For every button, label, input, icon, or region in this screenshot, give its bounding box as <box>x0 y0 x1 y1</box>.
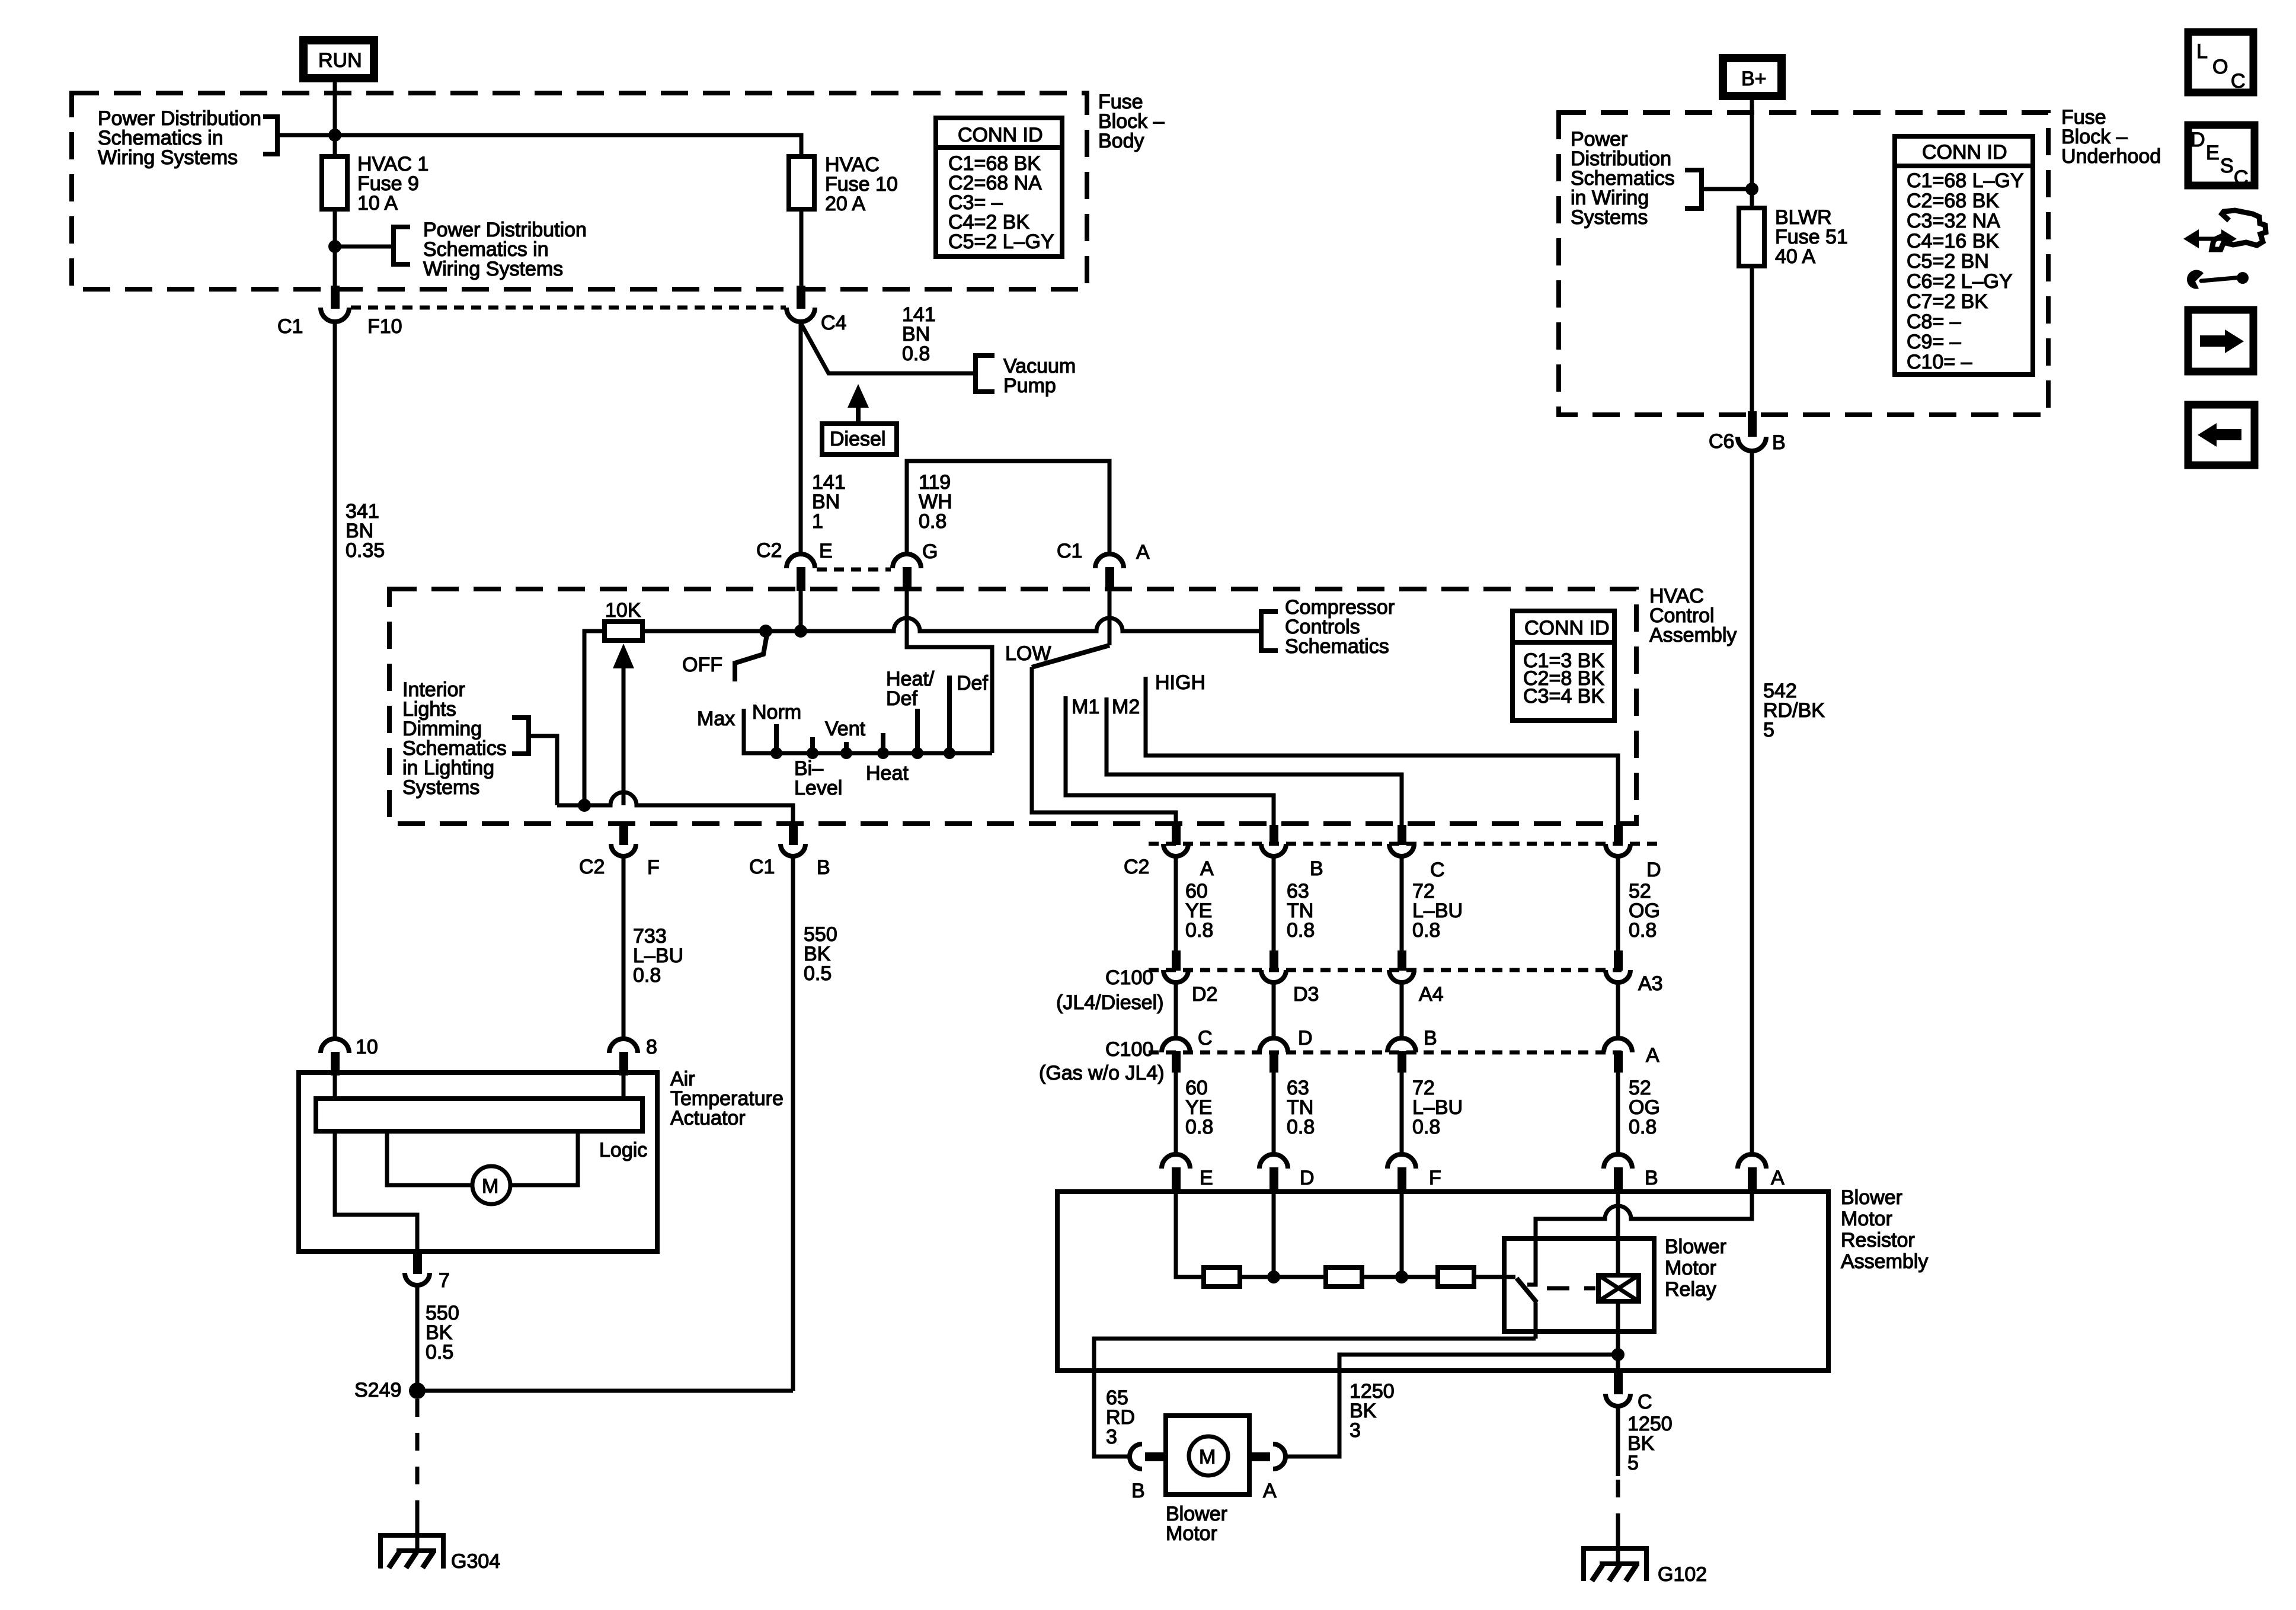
actuator pin wires inside <box>335 1074 623 1099</box>
wire G inside to mode switch <box>907 591 992 753</box>
mode bar junction dots <box>770 747 955 759</box>
air temperature actuator box <box>299 1073 657 1251</box>
svg-text:M2: M2 <box>1112 696 1140 718</box>
svg-text:C100: C100 <box>1105 1038 1153 1061</box>
svg-text:D3: D3 <box>1293 983 1319 1006</box>
fuse F51 BLWR <box>1739 206 1848 268</box>
svg-text:CONN ID: CONN ID <box>1524 617 1610 639</box>
mode contact Vent <box>844 742 849 753</box>
svg-text:Pump: Pump <box>1003 375 1056 397</box>
wire fuse 10 to connector C4 <box>800 209 804 296</box>
connector resistor pin D <box>1259 1154 1315 1193</box>
connector C2 pin G <box>893 540 938 591</box>
connector C100 gas pin D <box>1259 1027 1313 1073</box>
label Power Distribution Schematics (right) <box>423 219 587 280</box>
HIGH contact and wire to pin D <box>1146 677 1618 827</box>
svg-text:Wiring Systems: Wiring Systems <box>98 146 238 169</box>
svg-text:C1: C1 <box>1057 540 1082 562</box>
svg-text:Norm: Norm <box>752 701 801 724</box>
svg-text:M1: M1 <box>1072 696 1099 718</box>
svg-text:L: L <box>2196 40 2208 63</box>
relay coil <box>1598 1275 1639 1301</box>
svg-text:0.8: 0.8 <box>902 343 930 365</box>
wire 10K left leg down to dimmer junction <box>584 631 605 805</box>
svg-text:C: C <box>1198 1027 1213 1049</box>
Diesel label box <box>822 424 897 454</box>
svg-text:Blower: Blower <box>1665 1235 1726 1258</box>
wire 550 BK 0.5 (C1 B to S249) <box>793 857 837 1391</box>
mode contact Def <box>947 676 952 753</box>
svg-text:A: A <box>1263 1480 1277 1502</box>
svg-text:F10: F10 <box>367 315 402 338</box>
svg-text:Def: Def <box>886 687 917 710</box>
icon arrow left box <box>2188 405 2255 465</box>
label Power Distribution Schematics (left) <box>98 107 261 169</box>
connector C100 diesel pin A4 <box>1389 950 1444 1006</box>
resistor R3 <box>1438 1267 1474 1286</box>
svg-text:0.8: 0.8 <box>1412 1116 1440 1138</box>
svg-text:5: 5 <box>1763 719 1774 741</box>
svg-text:Motor: Motor <box>1665 1257 1716 1279</box>
relay armature to output <box>1534 1302 1538 1339</box>
svg-text:(Gas w/o JL4): (Gas w/o JL4) <box>1039 1062 1165 1084</box>
svg-text:0.8: 0.8 <box>1287 919 1315 942</box>
connector C2 pin F <box>579 825 660 879</box>
label Blower Motor <box>1166 1503 1227 1545</box>
svg-text:F: F <box>1429 1167 1441 1189</box>
svg-text:Assembly: Assembly <box>1649 624 1737 646</box>
svg-text:A: A <box>1136 541 1150 564</box>
label Fuse Block Underhood <box>2061 106 2161 168</box>
svg-text:Logic: Logic <box>599 1139 647 1161</box>
svg-text:C4: C4 <box>821 312 846 334</box>
svg-text:Relay: Relay <box>1665 1278 1716 1301</box>
bracket to Vacuum Pump <box>976 356 994 392</box>
svg-text:C: C <box>2234 167 2249 189</box>
svg-text:0.8: 0.8 <box>1185 1116 1213 1138</box>
main switch feed line with hops over G and A <box>642 618 1261 631</box>
fuse F9 HVAC 1 <box>322 153 428 215</box>
svg-text:Systems: Systems <box>1571 206 1648 229</box>
svg-text:0.5: 0.5 <box>804 962 832 985</box>
HVAC control assembly dashed box <box>389 589 1636 824</box>
wire B to coil <box>1616 1193 1620 1275</box>
svg-text:D: D <box>1300 1167 1315 1189</box>
connector C4 <box>786 286 846 334</box>
wire B+ to fuse 51 <box>1750 96 1754 207</box>
connector motor pin B <box>1130 1444 1145 1502</box>
svg-text:0.8: 0.8 <box>1287 1116 1315 1138</box>
svg-text:Body: Body <box>1098 130 1144 152</box>
svg-text:10K: 10K <box>605 599 641 622</box>
potentiometer wiper arrow (from C2 F) <box>613 644 634 805</box>
connector C1 pin B <box>749 825 830 879</box>
svg-text:C9= –: C9= – <box>1907 331 1961 353</box>
connector C100 diesel pin A3 <box>1606 950 1663 995</box>
svg-text:C5=2 BN: C5=2 BN <box>1907 250 1989 273</box>
blower switch wiper from C1 A <box>1108 591 1112 645</box>
svg-text:F: F <box>647 856 660 879</box>
wire bracket to junction <box>277 133 335 137</box>
svg-text:M: M <box>1199 1446 1216 1468</box>
mode contact Bi-Level <box>810 737 815 753</box>
svg-text:S249: S249 <box>354 1379 401 1401</box>
connector C1 pin F10 <box>277 286 402 338</box>
wire 119 WH 0.8 (HVAC G to A jumper) <box>907 461 1109 554</box>
svg-text:8: 8 <box>646 1036 657 1058</box>
svg-text:G102: G102 <box>1658 1563 1707 1586</box>
blower motor box <box>1166 1416 1249 1494</box>
wire fuse 51 to connector C6 <box>1750 266 1754 415</box>
icon vehicle harness with double arrow <box>2183 210 2266 249</box>
wire 60 YE 0.8 (gas row to resistor E) <box>1176 1073 1213 1154</box>
wire 341 BN 0.35 (C1 F10 down to actuator pin 10) <box>335 322 385 1039</box>
wire RUN to fuse 9 <box>333 78 337 155</box>
svg-text:A4: A4 <box>1419 983 1444 1006</box>
svg-text:3: 3 <box>1350 1419 1361 1442</box>
wire 72 L-BU 0.8 (C to C100) <box>1402 857 1463 952</box>
wire 141 BN 0.8 (C4 to vacuum pump) <box>801 303 974 373</box>
svg-text:40 A: 40 A <box>1775 245 1815 268</box>
wire 550 BK 0.5 (pin 7 to S249) <box>417 1285 459 1391</box>
blower motor M <box>1189 1436 1228 1475</box>
connector motor pin A <box>1263 1444 1285 1502</box>
svg-text:C100: C100 <box>1105 966 1153 989</box>
svg-text:0.8: 0.8 <box>1629 1116 1657 1138</box>
relay fixed contact <box>1527 1274 1536 1285</box>
junction F <box>1395 1270 1408 1283</box>
label Fuse Block Body <box>1098 91 1165 152</box>
connector C1 pin A <box>1057 540 1150 591</box>
label C100 (Gas w/o JL4) <box>1039 1038 1165 1084</box>
relay K blower motor relay box <box>1504 1238 1654 1331</box>
connector C2 pin B <box>1261 825 1323 880</box>
wire 1250 BK 5 (C to ground) <box>1618 1406 1673 1476</box>
svg-text:C6=2 L–GY: C6=2 L–GY <box>1907 270 2013 293</box>
connector actuator pin 10 <box>321 1036 378 1076</box>
svg-text:D: D <box>1298 1027 1313 1049</box>
svg-text:Schematics: Schematics <box>1285 635 1389 658</box>
connector C100 gas pin B <box>1387 1027 1437 1073</box>
svg-text:B: B <box>1772 431 1786 454</box>
wire 542 RD/BK 5 (C6 B down to resistor assembly pin A) <box>1752 451 1825 1154</box>
wire F drop <box>1400 1193 1404 1277</box>
connector C6 pin B <box>1709 411 1786 454</box>
blower motor resistor assembly box <box>1057 1192 1828 1371</box>
svg-text:Systems: Systems <box>402 776 479 799</box>
svg-text:E: E <box>819 540 833 562</box>
svg-text:C: C <box>1430 859 1445 881</box>
svg-text:B: B <box>1131 1480 1145 1502</box>
svg-text:0.8: 0.8 <box>1185 919 1213 942</box>
wire dimmer bracket to junction <box>529 736 557 805</box>
bracket to Compressor Controls <box>1261 612 1278 651</box>
actuator motor M <box>472 1166 510 1204</box>
label Power Distribution Schematics (underhood) <box>1571 128 1675 229</box>
label Compressor Controls Schematics <box>1285 596 1395 658</box>
junction at RUN feed <box>328 129 341 142</box>
Diesel applicability arrow <box>848 384 869 424</box>
wire 65 RD 3 (relay output to motor B) <box>1094 1339 1536 1457</box>
svg-text:C10= –: C10= – <box>1907 351 1972 373</box>
svg-text:D: D <box>2191 129 2205 151</box>
svg-text:B+: B+ <box>1741 68 1767 90</box>
connector C100 diesel pin D2 <box>1163 950 1217 1006</box>
actuator output wire <box>335 1131 417 1251</box>
svg-text:A3: A3 <box>1638 972 1663 995</box>
resistor 10K (blend door pot) <box>605 599 642 641</box>
splice S249 <box>354 1379 426 1401</box>
svg-text:20 A: 20 A <box>825 193 865 215</box>
svg-text:B: B <box>1310 857 1323 880</box>
wire 1250 BK 3 (motor A to coil return) <box>1287 1355 1618 1457</box>
wire R2 to R3 <box>1362 1275 1438 1279</box>
wire 63 TN 0.8 (gas row to resistor D) <box>1274 1073 1315 1154</box>
connector C2 pin D <box>1606 825 1661 881</box>
svg-text:(JL4/Diesel): (JL4/Diesel) <box>1056 991 1163 1014</box>
blower motor terminal stub B <box>1145 1452 1168 1461</box>
svg-text:E: E <box>1200 1167 1213 1189</box>
label Interior Lights Dimming Schematics <box>402 678 507 799</box>
bracket to Power Distribution (underhood) <box>1685 170 1702 209</box>
connector resistor pin A <box>1738 1154 1785 1193</box>
connector C100 diesel pin D3 <box>1261 950 1319 1006</box>
wire feed to fuse 10 <box>335 135 801 155</box>
M1 contact and wire to pin B <box>1066 696 1274 827</box>
label C100 (JL4/Diesel) <box>1056 966 1163 1014</box>
junction E feed <box>794 625 807 638</box>
svg-text:0.8: 0.8 <box>919 510 946 533</box>
svg-text:C1=68 L–GY: C1=68 L–GY <box>1907 169 2024 192</box>
connector resistor pin E <box>1162 1154 1213 1193</box>
svg-text:C: C <box>2231 70 2246 92</box>
wire 60 YE 0.8 (A to C100) <box>1176 857 1213 952</box>
svg-text:0.35: 0.35 <box>346 539 385 562</box>
label HVAC Control Assembly <box>1649 585 1737 646</box>
wire junction to bracket (right) <box>335 245 394 249</box>
svg-text:A: A <box>1200 857 1214 880</box>
wire E to resistor chain <box>1176 1193 1204 1277</box>
connector actuator pin 8 <box>609 1036 657 1076</box>
label Blower Motor Resistor Assembly <box>1841 1186 1928 1273</box>
wires C100 to C100 <box>1176 982 1618 1038</box>
resistor R2 <box>1326 1267 1362 1286</box>
svg-text:C3=4 BK: C3=4 BK <box>1523 685 1604 708</box>
svg-text:7: 7 <box>439 1269 450 1292</box>
svg-text:C1: C1 <box>277 315 303 338</box>
svg-text:Vent: Vent <box>825 718 866 740</box>
svg-text:C5=2 L–GY: C5=2 L–GY <box>948 231 1054 253</box>
junction dimmer / 10K <box>578 799 591 812</box>
svg-text:M: M <box>482 1175 498 1198</box>
svg-text:Blower: Blower <box>1841 1186 1902 1209</box>
connector resistor pin F <box>1387 1154 1441 1193</box>
connector row dotted line (body) <box>351 306 786 310</box>
M2 contact and wire to pin C <box>1107 697 1402 827</box>
mode contact Norm <box>774 724 779 753</box>
svg-text:HIGH: HIGH <box>1155 671 1205 694</box>
connector dashed link E to G <box>817 568 891 572</box>
relay coil link dashed <box>1547 1286 1595 1291</box>
blower switch lever to LOW <box>1032 645 1109 667</box>
svg-text:LOW: LOW <box>1005 642 1051 665</box>
svg-text:10: 10 <box>356 1036 378 1058</box>
svg-text:C8= –: C8= – <box>1907 311 1961 333</box>
bracket to Power Distribution (left) <box>263 117 277 154</box>
svg-text:0.5: 0.5 <box>426 1341 453 1363</box>
label Blower Motor Relay <box>1665 1235 1726 1301</box>
wire bracket to junction <box>1702 187 1752 191</box>
svg-text:A: A <box>1646 1044 1659 1067</box>
CONN ID table (body) <box>936 118 1062 257</box>
OFF wiper lever <box>682 635 767 681</box>
svg-text:D2: D2 <box>1192 983 1217 1006</box>
ground G102 <box>1584 1529 1707 1586</box>
svg-text:B: B <box>817 856 830 879</box>
connector row C2 dashed line <box>1149 842 1661 846</box>
mode contact Heat <box>881 733 885 753</box>
LOW contact and wire to pin A <box>1032 667 1176 827</box>
actuator motor loop <box>387 1131 578 1185</box>
svg-text:D: D <box>1646 859 1661 881</box>
svg-text:0.8: 0.8 <box>633 964 661 987</box>
wire fuse 9 to connector C1 <box>333 209 337 296</box>
CONN ID table (underhood) <box>1895 136 2033 375</box>
svg-text:Motor: Motor <box>1166 1522 1217 1545</box>
wire 733 L-BU 0.8 (C2 F to actuator pin 8) <box>623 857 683 1039</box>
svg-text:CONN ID: CONN ID <box>958 124 1043 146</box>
wire R1 to R2 <box>1240 1275 1326 1279</box>
svg-text:C1: C1 <box>749 856 775 878</box>
svg-text:Diesel: Diesel <box>830 428 885 450</box>
wire 63 TN 0.8 (B to C100) <box>1274 857 1315 952</box>
fuse block underhood dashed box <box>1559 113 2048 415</box>
svg-text:10 A: 10 A <box>357 192 398 215</box>
wire A feed with hop over B <box>1536 1193 1752 1274</box>
svg-text:G304: G304 <box>451 1550 500 1573</box>
mode position labels <box>697 668 988 799</box>
bracket to Power Distribution (right) <box>394 227 410 264</box>
svg-text:Underhood: Underhood <box>2061 145 2161 168</box>
connector C100 gas pin C <box>1162 1027 1213 1073</box>
icon LOC box <box>2188 32 2253 92</box>
svg-text:Wiring Systems: Wiring Systems <box>423 258 563 280</box>
wire 72 L-BU 0.8 (gas row to resistor F) <box>1402 1073 1463 1154</box>
svg-text:E: E <box>2206 142 2220 164</box>
svg-text:A: A <box>1771 1167 1785 1189</box>
connector C2 pin E <box>756 539 833 591</box>
svg-text:C: C <box>1638 1391 1652 1413</box>
mode contact Heat/Def <box>915 709 920 753</box>
svg-text:CONN ID: CONN ID <box>1922 141 2007 164</box>
svg-text:S: S <box>2220 155 2234 177</box>
label Vacuum Pump <box>1003 355 1076 397</box>
junction at B+ feed <box>1745 183 1758 196</box>
ground G304 <box>380 1517 500 1573</box>
connector resistor pin C (bottom) <box>1606 1371 1652 1413</box>
blower motor terminal stub A <box>1248 1452 1270 1461</box>
svg-text:Def: Def <box>957 672 988 694</box>
wire R3 to relay contact <box>1474 1275 1515 1279</box>
connector row C100 (Gas w/o JL4) dashed line <box>1149 1051 1622 1055</box>
svg-text:C6: C6 <box>1709 430 1734 453</box>
CONN ID table (HVAC) <box>1512 611 1614 721</box>
svg-text:C2=68 BK: C2=68 BK <box>1907 190 1999 212</box>
svg-text:C2: C2 <box>756 539 782 562</box>
svg-text:3: 3 <box>1106 1426 1117 1448</box>
connector C100 gas pin A <box>1604 1038 1659 1073</box>
node B+ (battery feed box) <box>1723 58 1782 96</box>
svg-text:C2: C2 <box>1124 856 1149 878</box>
dashed wire S249 to G304 <box>415 1399 420 1529</box>
node RUN (ignition feed box) <box>303 40 374 78</box>
svg-text:Heat: Heat <box>866 762 909 785</box>
mode switch common bar <box>744 709 992 753</box>
svg-text:0.8: 0.8 <box>1412 919 1440 942</box>
relay armature <box>1517 1278 1537 1302</box>
wire dimmer line to C1 B with hop over wiper <box>557 792 793 827</box>
svg-text:Motor: Motor <box>1841 1208 1892 1230</box>
dashed wire to G102 <box>1616 1480 1620 1535</box>
connector resistor pin B <box>1604 1154 1658 1193</box>
icon arrow right box <box>2188 310 2253 372</box>
svg-text:Max: Max <box>697 708 735 730</box>
svg-text:C3=32 NA: C3=32 NA <box>1907 210 2000 232</box>
svg-text:O: O <box>2212 56 2228 78</box>
bracket to Interior Lights Dimming <box>512 718 529 754</box>
wire E inside to main line <box>799 591 803 631</box>
icon wrench <box>2187 270 2249 289</box>
resistor R1 <box>1204 1267 1240 1286</box>
fuse block body dashed box <box>72 93 1087 289</box>
svg-text:Actuator: Actuator <box>670 1107 746 1129</box>
fuse F10 HVAC <box>789 153 898 215</box>
svg-text:Level: Level <box>794 777 842 799</box>
wire 52 OG 0.8 (D to C100) <box>1618 857 1660 952</box>
junction below fuse 9 <box>328 240 341 253</box>
svg-text:B: B <box>1424 1027 1437 1049</box>
icon DESC box <box>2188 125 2255 189</box>
junction OFF wiper <box>759 625 772 638</box>
junction coil return <box>1611 1348 1625 1361</box>
connector actuator pin 7 <box>405 1251 450 1292</box>
connector C2 pin A <box>1124 825 1214 880</box>
wire D drop <box>1272 1193 1276 1277</box>
svg-text:Assembly: Assembly <box>1841 1250 1928 1273</box>
wire 141 BN 1 (C4 to HVAC C2 pin E) <box>801 323 846 554</box>
label Air Temperature Actuator <box>670 1068 784 1129</box>
connector C2 pin C <box>1389 825 1445 881</box>
svg-text:C2: C2 <box>579 856 605 878</box>
svg-text:B: B <box>1645 1167 1658 1189</box>
wire 52 OG 0.8 (gas row to resistor B) <box>1618 1073 1660 1154</box>
wire S249 to C1 B branch <box>417 1389 793 1393</box>
svg-text:G: G <box>922 540 938 563</box>
svg-text:1: 1 <box>812 510 823 533</box>
svg-text:C4=16 BK: C4=16 BK <box>1907 230 1999 252</box>
svg-text:Resistor: Resistor <box>1841 1229 1915 1251</box>
actuator logic bar <box>316 1099 642 1131</box>
svg-text:RUN: RUN <box>318 49 362 72</box>
wire coil to junction <box>1616 1301 1620 1381</box>
svg-text:5: 5 <box>1627 1452 1639 1474</box>
svg-text:OFF: OFF <box>682 654 722 676</box>
junction D <box>1267 1270 1280 1283</box>
svg-text:0.8: 0.8 <box>1629 919 1657 942</box>
connector row C100 (JL4/Diesel) dashed line <box>1149 968 1622 972</box>
svg-text:C7=2 BK: C7=2 BK <box>1907 290 1988 313</box>
